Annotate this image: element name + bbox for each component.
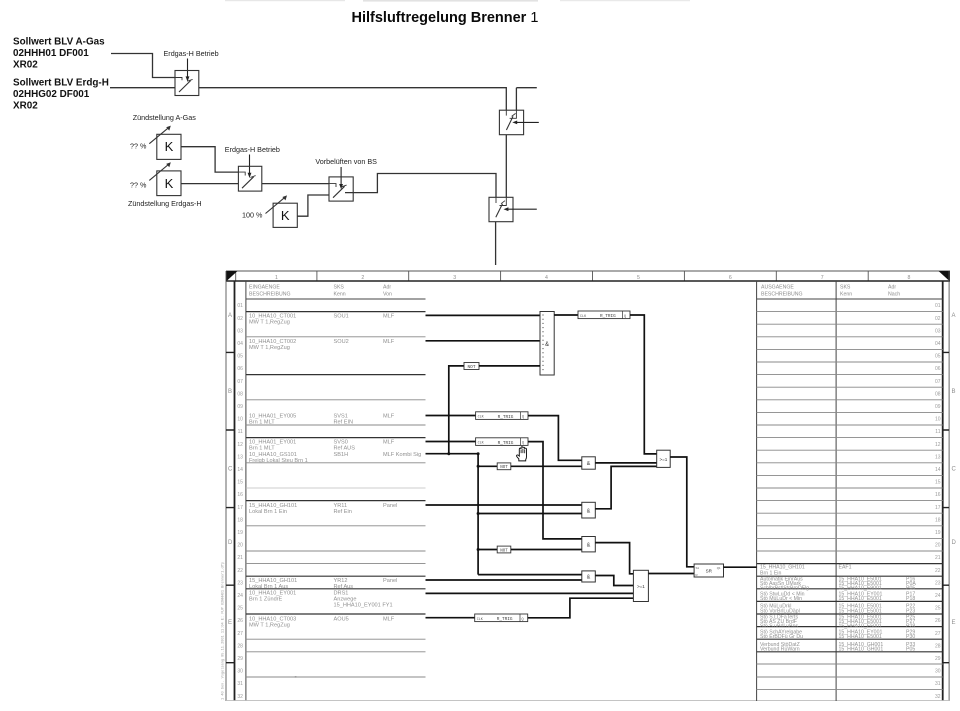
- node J2: [477, 452, 480, 455]
- svg-text:R_TRIG: R_TRIG: [498, 415, 514, 420]
- svg-text:Q: Q: [624, 315, 626, 319]
- svg-text:Erdgas-H Betrieb: Erdgas-H Betrieb: [164, 49, 219, 58]
- svg-text:B: B: [952, 389, 956, 395]
- wire row23 to AND5: [426, 579, 582, 581]
- svg-text:08: 08: [237, 391, 243, 397]
- svg-text:20: 20: [237, 543, 243, 549]
- wire row26 to RTRIG4: [426, 617, 475, 619]
- svg-text:>=1: >=1: [637, 584, 645, 589]
- svg-text:31: 31: [935, 681, 941, 687]
- svg-text:R_TRIG: R_TRIG: [498, 441, 514, 446]
- svg-text:Freigb Lokal Steu Brn 1: Freigb Lokal Steu Brn 1: [249, 458, 308, 464]
- svg-text:Kenn: Kenn: [334, 292, 346, 298]
- control arrow S5: [508, 208, 537, 210]
- svg-text:E: E: [228, 620, 232, 626]
- svg-text:Panel: Panel: [383, 578, 397, 584]
- svg-text:6: 6: [729, 275, 732, 281]
- switch S2 (Erdgas-H Betrieb): [238, 166, 261, 191]
- hand cursor: [516, 447, 526, 461]
- svg-text:14: 14: [237, 467, 243, 473]
- wire A-Gas setpoint to switch S1: [111, 54, 175, 78]
- svg-text:17: 17: [237, 505, 243, 511]
- svg-text:06: 06: [237, 366, 243, 372]
- svg-text:P18: P18: [906, 596, 915, 602]
- svg-text:15_HHA10_GH001: 15_HHA10_GH001: [839, 647, 884, 653]
- stray dot row30: [295, 676, 297, 677]
- r-trig block RTRIG3: [476, 438, 528, 446]
- svg-text:8: 8: [908, 275, 911, 281]
- svg-text:02: 02: [237, 316, 243, 322]
- svg-text:MW T 1,RegZug: MW T 1,RegZug: [249, 319, 290, 325]
- svg-text:100 %: 100 %: [242, 211, 263, 220]
- svg-text:4: 4: [545, 275, 548, 281]
- or gate OR1: [657, 450, 671, 467]
- svg-text:07: 07: [935, 379, 941, 385]
- wire row12 to RTRIG3: [426, 441, 476, 443]
- svg-text:&: &: [545, 342, 549, 348]
- svg-text:EAF1: EAF1: [839, 565, 852, 571]
- svg-text:21: 21: [237, 555, 243, 561]
- svg-text:Ref AUS: Ref AUS: [334, 446, 356, 452]
- svg-text:Lokal Brn 1 Ein: Lokal Brn 1 Ein: [249, 509, 287, 515]
- wire K3 to S3: [297, 195, 329, 216]
- wire S2 to S3: [262, 183, 329, 185]
- svg-text:P30: P30: [906, 634, 915, 640]
- svg-text:07: 07: [237, 379, 243, 385]
- control arrow S2: [249, 155, 251, 174]
- svg-text:22: 22: [237, 568, 243, 574]
- svg-text:17: 17: [935, 505, 941, 511]
- svg-text:30: 30: [237, 669, 243, 675]
- node label Sollwert BLV Erdg-H: [13, 78, 109, 112]
- svg-text:&: &: [587, 575, 591, 581]
- wire tap to NOT3: [478, 549, 497, 551]
- header strip: [226, 271, 950, 281]
- node J3: [477, 465, 480, 468]
- wire OR1 out to SR: [670, 457, 694, 567]
- svg-text:R: R: [696, 573, 698, 577]
- not gate NOT1: [464, 363, 479, 370]
- node label Sollwert BLV A-Gas: [13, 37, 105, 71]
- svg-text:CLK: CLK: [580, 315, 587, 319]
- wire S5 down to sheet: [495, 222, 497, 265]
- svg-text:19: 19: [237, 530, 243, 536]
- svg-text:Zündstellung Erdgas-H: Zündstellung Erdgas-H: [128, 199, 202, 208]
- svg-text:29: 29: [935, 656, 941, 662]
- svg-text:04: 04: [237, 341, 243, 347]
- svg-text:24: 24: [935, 593, 941, 599]
- svg-text:15_HHA10_EY001 FY1: 15_HHA10_EY001 FY1: [334, 602, 393, 608]
- svg-text:26: 26: [237, 618, 243, 624]
- svg-text:18: 18: [935, 517, 941, 523]
- svg-text:&: &: [587, 543, 591, 549]
- svg-text:23: 23: [237, 580, 243, 586]
- svg-text:MLF Kombi Sig: MLF Kombi Sig: [383, 452, 421, 458]
- faint scan artifacts top edge: [225, 0, 345, 1]
- wire row10 to RTRIG2: [426, 415, 476, 417]
- svg-text:Zündstellung A-Gas: Zündstellung A-Gas: [133, 113, 197, 122]
- svg-text:30: 30: [935, 669, 941, 675]
- svg-text:Panel: Panel: [383, 503, 397, 509]
- wire S3 output to switch S5: [345, 174, 496, 198]
- svg-text:1 40 Gen. Vogelsang 05.11.200: 1 40 Gen. Vogelsang 05.11.2001 11:04 E: …: [221, 562, 226, 700]
- right table entries: [760, 565, 916, 653]
- svg-text:Ref EIN: Ref EIN: [334, 420, 354, 426]
- bottom border: [226, 700, 950, 702]
- svg-text:08: 08: [935, 391, 941, 397]
- svg-text:01: 01: [237, 303, 243, 309]
- r-trig block RTRIG2: [476, 412, 528, 420]
- svg-text:25: 25: [237, 606, 243, 612]
- svg-text:05: 05: [237, 354, 243, 360]
- svg-text:11: 11: [935, 429, 940, 435]
- left border: [225, 271, 227, 701]
- svg-text:NOT: NOT: [500, 549, 508, 553]
- not gate NOT3: [497, 546, 511, 553]
- svg-text:20: 20: [935, 543, 941, 549]
- svg-text:15: 15: [237, 480, 243, 486]
- svg-text:32: 32: [237, 694, 243, 700]
- wire row02 to AND1: [426, 314, 541, 316]
- svg-text:Erdgas-H Betrieb: Erdgas-H Betrieb: [225, 145, 280, 154]
- wire Erdg-H setpoint to switch S1: [110, 87, 175, 89]
- svg-text:12: 12: [237, 442, 243, 448]
- svg-text:MW T 1,RegZug: MW T 1,RegZug: [249, 622, 290, 628]
- right row numbers: [935, 303, 941, 700]
- svg-text:Brn 1 ZündrE: Brn 1 ZündrE: [249, 597, 283, 603]
- wire row24 to OR2: [426, 592, 634, 594]
- switch S5: [489, 197, 513, 221]
- svg-text:02: 02: [935, 316, 941, 322]
- gain block K2: [149, 164, 181, 196]
- svg-text:11: 11: [238, 429, 243, 435]
- svg-text:?? %: ?? %: [130, 141, 147, 150]
- right row lines: [757, 312, 943, 690]
- wire NOT1 out to AND1: [479, 365, 540, 367]
- control arrow S3: [340, 167, 342, 185]
- switch S3 (Vorbelueften von BS): [329, 177, 353, 201]
- gain block K1: [149, 127, 181, 159]
- wire AND4 out to OR2: [595, 543, 633, 574]
- svg-text:BESCHREIBUNG: BESCHREIBUNG: [761, 292, 803, 298]
- svg-text:R_TRIG: R_TRIG: [497, 617, 513, 622]
- svg-text:SB1H: SB1H: [334, 452, 349, 458]
- svg-text:MLF: MLF: [383, 616, 395, 622]
- svg-text:Adr: Adr: [383, 285, 391, 291]
- node J4: [477, 512, 480, 515]
- svg-text:27: 27: [237, 631, 243, 637]
- right border: [942, 281, 944, 701]
- wire S1 output to node above switch S4: [199, 88, 507, 111]
- left table entries: [249, 313, 421, 628]
- svg-text:05: 05: [935, 354, 941, 360]
- svg-text:03: 03: [935, 328, 941, 334]
- control arrow S4: [516, 121, 538, 123]
- svg-text:XR02: XR02: [13, 101, 38, 112]
- svg-text:SOU2: SOU2: [334, 339, 349, 345]
- svg-text:C: C: [228, 467, 233, 473]
- svg-text:1: 1: [275, 275, 278, 281]
- wire RTRIG3 to AND4: [528, 442, 582, 539]
- svg-text:13: 13: [237, 454, 243, 460]
- sr flipflop SR1: [694, 564, 723, 577]
- wire row13 bus: [426, 453, 479, 455]
- gain block K3: [266, 197, 298, 227]
- wire RTRIG2 to AND2: [528, 416, 582, 461]
- svg-text:SR: SR: [706, 568, 713, 573]
- svg-text:S1: S1: [696, 566, 700, 570]
- wire AND3 out to OR1: [595, 466, 656, 508]
- svg-text:09: 09: [237, 404, 243, 410]
- svg-text:06: 06: [935, 366, 941, 372]
- wire S4 to S5: [505, 135, 507, 198]
- wire bus up to NOT1: [449, 366, 464, 454]
- control arrow S1: [187, 59, 189, 78]
- svg-text:?? %: ?? %: [130, 181, 147, 190]
- node J1: [447, 452, 450, 455]
- wire AND1 out to RTRIG1: [554, 314, 578, 316]
- svg-text:02HHH01 DF001: 02HHH01 DF001: [13, 48, 89, 59]
- wire OR2 out to SR: [648, 573, 694, 575]
- svg-text:28: 28: [935, 643, 941, 649]
- switch S1 (Erdgas-H Betrieb): [175, 71, 199, 96]
- wire tap to AND3: [478, 513, 582, 515]
- svg-text:5: 5: [637, 275, 640, 281]
- svg-text:CLK: CLK: [478, 442, 485, 446]
- svg-text:24: 24: [237, 593, 243, 599]
- svg-text:K: K: [165, 176, 174, 191]
- svg-text:MW T 1,RegZug: MW T 1,RegZug: [249, 345, 290, 351]
- svg-text:7: 7: [821, 275, 824, 281]
- svg-text:Stö MüLuDr < Min: Stö MüLuDr < Min: [760, 596, 802, 602]
- svg-text:CLK: CLK: [477, 618, 484, 622]
- svg-text:12: 12: [935, 442, 941, 448]
- svg-text:NOT: NOT: [500, 466, 508, 470]
- node J5: [477, 548, 480, 551]
- svg-text:CLK: CLK: [478, 416, 485, 420]
- svg-text:19: 19: [935, 530, 941, 536]
- wire AND5 out to OR2: [595, 576, 633, 586]
- svg-text:K: K: [281, 208, 290, 223]
- and gate AND2: [582, 457, 596, 469]
- wire stub A at switch S4 top: [516, 88, 536, 111]
- svg-text:BESCHREIBUNG: BESCHREIBUNG: [249, 292, 291, 298]
- svg-text:15_HHA10_E5001: 15_HHA10_E5001: [839, 596, 882, 602]
- svg-text:09: 09: [935, 404, 941, 410]
- svg-text:10: 10: [237, 417, 243, 423]
- svg-text:Von: Von: [383, 292, 392, 298]
- svg-text:Q: Q: [522, 442, 524, 446]
- switch S4: [499, 110, 523, 135]
- svg-text:&: &: [587, 461, 591, 467]
- not gate NOT2: [497, 463, 511, 470]
- svg-text:Kenn: Kenn: [840, 292, 852, 298]
- wire bus B end to AND5: [478, 574, 582, 576]
- svg-text:3: 3: [453, 275, 456, 281]
- wire bus B down: [477, 454, 479, 575]
- svg-text:MLF: MLF: [383, 313, 395, 319]
- wire RTRIG1 to OR1: [630, 315, 657, 454]
- svg-text:MLF: MLF: [383, 339, 395, 345]
- svg-text:18: 18: [237, 517, 243, 523]
- svg-text:Sollwert BLV Erdg-H: Sollwert BLV Erdg-H: [13, 78, 109, 89]
- svg-text:MLF: MLF: [383, 440, 395, 446]
- svg-text:23: 23: [935, 580, 941, 586]
- wire tap to NOT2: [478, 465, 497, 467]
- wire AND2 out to OR1: [595, 462, 656, 464]
- svg-text:R_TRIG: R_TRIG: [600, 314, 616, 319]
- wire row17 to AND3: [426, 504, 582, 506]
- svg-text:31: 31: [237, 681, 243, 687]
- svg-text:SKS: SKS: [840, 285, 851, 291]
- svg-text:Nach: Nach: [888, 292, 900, 298]
- svg-text:Ref Ein: Ref Ein: [334, 509, 352, 515]
- svg-text:26: 26: [935, 618, 941, 624]
- wire K2 to S2: [181, 183, 238, 185]
- svg-text:E: E: [952, 620, 956, 626]
- svg-text:Q: Q: [522, 416, 524, 420]
- svg-text:Sollwert BLV A-Gas: Sollwert BLV A-Gas: [13, 37, 105, 48]
- svg-text:MLF: MLF: [383, 414, 395, 420]
- svg-text:28: 28: [237, 643, 243, 649]
- svg-text:Q: Q: [522, 618, 524, 622]
- svg-text:10: 10: [935, 417, 941, 423]
- svg-text:Verbund RüWarn: Verbund RüWarn: [760, 647, 800, 653]
- wire SR out to output table: [724, 566, 757, 568]
- svg-text:02HHG02 DF001: 02HHG02 DF001: [13, 89, 90, 100]
- svg-text:Hilfsluftregelung Brenner 1: Hilfsluftregelung Brenner 1: [352, 10, 539, 26]
- svg-text:D: D: [952, 540, 957, 546]
- svg-text:SOU1: SOU1: [334, 313, 349, 319]
- r-trig block RTRIG1: [578, 311, 630, 319]
- svg-text:Stö ErBDFü Gr Du: Stö ErBDFü Gr Du: [760, 634, 803, 640]
- svg-text:NOT: NOT: [468, 365, 476, 370]
- wire RTRIG4 to OR2: [528, 598, 634, 618]
- svg-text:SKS: SKS: [334, 285, 345, 291]
- svg-text:16: 16: [237, 492, 243, 498]
- wire NOT2 out to AND2: [511, 465, 582, 467]
- svg-text:27: 27: [935, 631, 941, 637]
- and gate AND4: [582, 537, 596, 552]
- svg-text:>=1: >=1: [659, 457, 667, 462]
- or gate OR2: [633, 570, 648, 601]
- svg-text:AUSGAENGE: AUSGAENGE: [761, 285, 794, 291]
- svg-text:Lokal Brn 1 Aus: Lokal Brn 1 Aus: [249, 584, 288, 590]
- svg-text:A: A: [952, 313, 956, 319]
- svg-text:14: 14: [935, 467, 941, 473]
- wire K1 to S2: [181, 147, 238, 172]
- svg-text:D: D: [228, 540, 233, 546]
- svg-text:15_HHA10_E5001: 15_HHA10_E5001: [839, 634, 882, 640]
- wire row04 to AND1: [426, 340, 541, 342]
- svg-text:B: B: [228, 389, 232, 395]
- left row lines: [246, 312, 426, 614]
- svg-text:&: &: [587, 509, 591, 515]
- svg-text:P05: P05: [906, 647, 915, 653]
- svg-text:EINGAENGE: EINGAENGE: [249, 285, 280, 291]
- and gate AND5: [582, 571, 596, 582]
- svg-text:25: 25: [935, 606, 941, 612]
- svg-text:2: 2: [361, 275, 364, 281]
- svg-text:Ref Aus: Ref Aus: [334, 584, 354, 590]
- svg-text:Vorbelüften von BS: Vorbelüften von BS: [315, 157, 377, 166]
- svg-text:13: 13: [935, 454, 941, 460]
- svg-text:Brn 1 MLT: Brn 1 MLT: [249, 420, 275, 426]
- svg-text:32: 32: [935, 694, 941, 700]
- svg-text:Adr: Adr: [888, 285, 896, 291]
- wire NOT3 out to AND4: [511, 549, 582, 551]
- svg-text:15: 15: [935, 480, 941, 486]
- svg-text:16: 16: [935, 492, 941, 498]
- left row numbers: [237, 303, 243, 700]
- svg-text:01: 01: [935, 303, 941, 309]
- svg-text:XR02: XR02: [13, 60, 38, 71]
- r-trig block RTRIG4: [475, 614, 528, 622]
- svg-text:21: 21: [935, 555, 941, 561]
- svg-text:K: K: [165, 139, 174, 154]
- svg-text:A: A: [228, 313, 232, 319]
- zone letters: [228, 313, 957, 626]
- svg-text:29: 29: [237, 656, 243, 662]
- svg-text:03: 03: [237, 328, 243, 334]
- svg-text:Brn 1 MLT: Brn 1 MLT: [249, 446, 275, 452]
- svg-text:Q1: Q1: [717, 566, 721, 570]
- svg-text:AOU5: AOU5: [334, 616, 349, 622]
- zone ticks left: [226, 352, 949, 662]
- svg-text:22: 22: [935, 568, 941, 574]
- and gate AND1: [540, 312, 554, 376]
- and gate AND3: [582, 502, 596, 518]
- svg-text:C: C: [952, 467, 957, 473]
- svg-text:04: 04: [935, 341, 941, 347]
